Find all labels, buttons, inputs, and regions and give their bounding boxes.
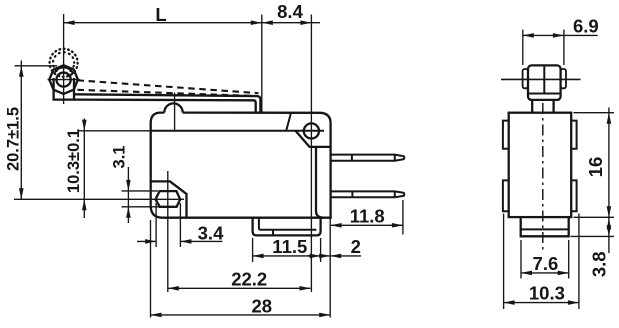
dim 28 left arrow	[151, 313, 162, 318]
ext line body left lower	[150, 220, 152, 318]
roller lever strip line	[528, 93, 561, 95]
dim 11.5 left arrow	[253, 254, 264, 259]
dim 3.1 top arrow	[126, 180, 131, 191]
ext line boss bottom right	[571, 235, 615, 237]
side view body	[509, 113, 572, 217]
dim 11.8 left arrow	[331, 223, 342, 228]
svg-text:3.1: 3.1	[110, 146, 128, 169]
roller horizontal centerline	[48, 79, 80, 81]
svg-text:11.8: 11.8	[350, 205, 385, 226]
lever fork	[54, 78, 74, 100]
dim 22.2 right arrow	[300, 286, 311, 291]
roller axle centerline	[501, 78, 581, 80]
side rib right upper	[571, 121, 576, 149]
side rib right lower	[571, 180, 576, 211]
svg-text:2: 2	[351, 236, 361, 257]
cover notch line	[286, 113, 291, 131]
roller hub circle	[57, 73, 71, 87]
ext line roller left face	[522, 30, 524, 66]
dim 10.3 top arrow	[82, 120, 87, 131]
svg-text:10.3±0.1: 10.3±0.1	[65, 129, 83, 193]
dim 7.6 right arrow	[558, 271, 569, 276]
dim 16 bottom arrow	[607, 206, 612, 217]
terminal 1 tip line	[394, 155, 396, 161]
dim 8.4 right arrow	[300, 20, 311, 25]
dim 20.7 bottom arrow	[19, 188, 24, 199]
ext line boss left face	[520, 240, 522, 279]
dimension line 10.3±0.1	[83, 119, 85, 219]
dim 3.4 right shaft	[180, 240, 222, 242]
roller flange arc	[54, 67, 73, 74]
svg-text:28: 28	[252, 295, 273, 316]
lower hole vertical centerline / ext (22.2)	[167, 171, 169, 292]
dim 28 right arrow	[319, 313, 330, 318]
terminal blade 2	[331, 191, 405, 197]
dim 2 left arrow	[310, 254, 321, 259]
roller flange left	[523, 69, 528, 88]
terminal blade 1	[331, 155, 405, 161]
roller center seam	[543, 65, 545, 93]
pocket outline below hole	[296, 131, 331, 147]
bottom boss divider	[272, 230, 274, 236]
ext line body top right	[574, 112, 615, 114]
dimension line 6.9	[523, 34, 598, 36]
hex hole top tangent ext (3.1)	[122, 190, 159, 192]
ext line hex left	[155, 203, 157, 247]
terminal 2 crimp line	[351, 191, 353, 197]
upper hole vertical centerline / extension (8.4, 22.2 dims)	[310, 15, 312, 293]
case seam line	[151, 130, 324, 132]
plunger dome	[164, 103, 182, 112]
ext line side right overall	[578, 214, 580, 310]
svg-text:8.4: 8.4	[277, 1, 303, 22]
dimension line 20.7	[20, 61, 22, 200]
hex hole bottom tangent ext (3.1)	[122, 206, 160, 208]
ext line hex right	[179, 203, 181, 247]
ext line boss right face	[568, 240, 570, 279]
svg-text:10.3: 10.3	[529, 283, 565, 304]
svg-text:16: 16	[585, 157, 606, 178]
dim 3.4 right arrow	[180, 239, 191, 244]
dim 6.9 left arrow	[523, 33, 534, 38]
mounting hole lower-left (hex)	[156, 191, 181, 207]
dimension line 8.4	[262, 22, 320, 24]
dimension line 3.1	[127, 167, 129, 223]
dimension line 16	[608, 108, 610, 218]
dimension line 11.5	[253, 255, 331, 257]
bottom boss outer	[253, 218, 321, 236]
dim 8.4 left arrow	[262, 20, 273, 25]
terminal 2 tip line	[394, 191, 396, 197]
mounting lug outline	[151, 181, 187, 217]
dim 3.1 bottom arrow	[126, 207, 131, 218]
lever free position top (dashed)	[78, 80, 259, 93]
svg-text:11.5: 11.5	[272, 236, 307, 257]
pocket inner wall	[316, 147, 324, 218]
plunger stem right	[552, 100, 554, 113]
ext line boss right end	[320, 238, 322, 262]
ext line roller top	[15, 65, 58, 67]
dim L left arrow	[64, 20, 75, 25]
dim L right arrow	[251, 20, 262, 25]
terminal 1 crimp line	[351, 155, 353, 161]
dimension line 28	[151, 314, 331, 316]
dim 3.8 bottom arrow	[607, 225, 612, 236]
dim 3.4 left arrow	[145, 239, 156, 244]
side rib left lower	[503, 180, 509, 211]
roller (side view)	[528, 65, 561, 100]
dim 11.8 right arrow	[392, 223, 403, 228]
ext line body bottom right	[574, 216, 615, 218]
dim 16 top arrow	[607, 113, 612, 124]
mounting hole upper-right	[304, 123, 319, 138]
roller free position inner dots	[53, 52, 74, 73]
plunger stem left	[531, 100, 533, 113]
lever free position bottom (dashed)	[78, 90, 256, 96]
dimension line 22.2	[168, 287, 311, 289]
dimension line 11.8	[331, 224, 403, 226]
svg-text:3.4: 3.4	[198, 223, 224, 244]
dim 3.4 left shaft	[137, 240, 156, 242]
dim 10.3 bottom arrow	[82, 199, 87, 210]
svg-text:6.9: 6.9	[573, 16, 599, 37]
svg-text:7.6: 7.6	[533, 253, 559, 274]
bottom boss inner step	[259, 218, 317, 230]
ext line roller right face	[563, 30, 565, 66]
plunger centerline	[174, 93, 176, 132]
dim 2 left shaft	[307, 255, 311, 257]
ext line boss left	[252, 238, 254, 262]
boss terminal line	[521, 228, 569, 230]
dim 2 right arrow	[330, 254, 341, 259]
roller vertical centerline / ext (L dim)	[63, 14, 65, 104]
svg-text:22.2: 22.2	[231, 268, 267, 289]
dimension line 3.8	[608, 217, 610, 253]
dim 20.7 top arrow	[19, 66, 24, 77]
dim 2 right shaft	[330, 255, 361, 257]
svg-text:3.8: 3.8	[589, 251, 610, 277]
extension line lever end	[261, 15, 263, 113]
dim 10.3 right arrow	[568, 300, 579, 305]
dimension line 10.3	[504, 302, 579, 304]
svg-text:L: L	[155, 4, 166, 25]
ext line blade tip	[402, 200, 404, 235]
seam extension line (10.3 ref)	[79, 130, 151, 132]
lever arm bottom edge	[74, 100, 256, 113]
dim 7.6 left arrow	[521, 271, 532, 276]
dim 6.9 right arrow	[553, 33, 564, 38]
dim 3.8 top arrow	[607, 218, 612, 229]
roller free position (dotted circle)	[50, 49, 78, 77]
side view vertical centerline	[542, 103, 544, 250]
side rib left upper	[503, 121, 509, 149]
dim 11.5 right arrow	[319, 254, 330, 259]
roller wheel (octagon outline)	[49, 65, 78, 94]
switch body outline (front view)	[151, 113, 331, 218]
dimension line L	[64, 22, 262, 24]
dimension line 7.6	[521, 272, 569, 274]
lower hole horizontal centerline / ext (20.7, 10.3)	[14, 198, 184, 200]
bottom boss (side view)	[521, 217, 569, 236]
dim 10.3 left arrow	[504, 300, 515, 305]
dim 22.2 left arrow	[168, 286, 179, 291]
svg-text:20.7±1.5: 20.7±1.5	[4, 107, 22, 171]
ext line body right lower	[329, 219, 331, 318]
lever arm top edge	[74, 94, 260, 112]
roller flange right	[561, 69, 566, 88]
ext line side left overall	[503, 214, 505, 310]
